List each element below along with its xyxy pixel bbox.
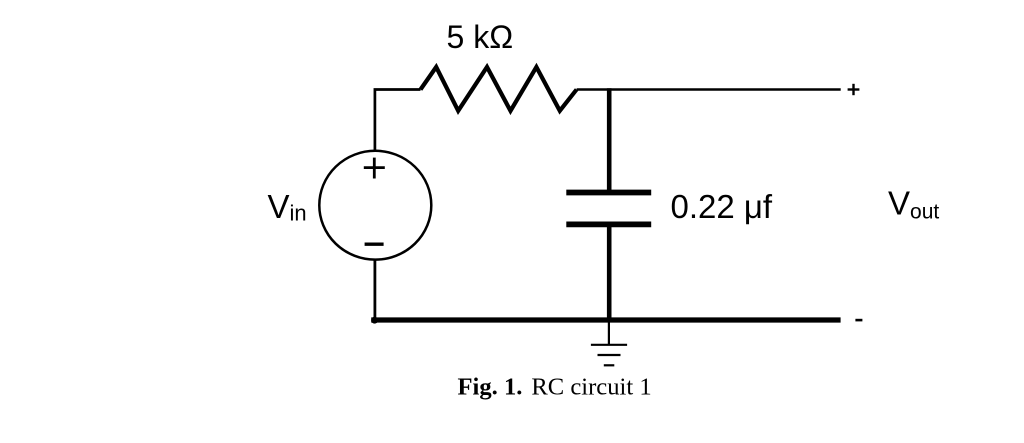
svg-text:5 kΩ: 5 kΩ — [447, 19, 514, 55]
wire: top-left corner (source top to resistor) — [375, 90, 421, 151]
resistor R1 5 kOhm zigzag — [421, 67, 577, 111]
svg-text:Vout: Vout — [888, 185, 939, 224]
ground bar 1 — [591, 344, 627, 346]
wire: source bottom lead — [373, 260, 376, 320]
wire: bottom rail — [371, 317, 840, 322]
ground bar 3 — [604, 364, 615, 366]
output - terminal mark — [855, 319, 862, 322]
svg-text:0.22 μf: 0.22 μf — [671, 188, 773, 225]
capacitor C1 bottom plate — [566, 221, 651, 227]
output + terminal mark — [848, 84, 860, 95]
wire: capacitor top lead from node — [607, 88, 612, 192]
junction dot bottom-left — [371, 317, 378, 324]
voltage source U1 circle — [319, 151, 431, 260]
wire: capacitor bottom lead to ground rail — [607, 224, 612, 320]
capacitor C1 top plate — [566, 190, 651, 196]
minus polarity mark inside source — [365, 242, 384, 245]
plus polarity mark inside source — [364, 158, 385, 179]
ground bar 2 — [598, 354, 621, 356]
wire: resistor to output + terminal (top right) — [577, 88, 841, 91]
svg-text:Vin: Vin — [268, 188, 307, 226]
ground stem — [608, 323, 610, 345]
svg-text:Fig. 1.RC circuit 1: Fig. 1.RC circuit 1 — [458, 373, 652, 400]
